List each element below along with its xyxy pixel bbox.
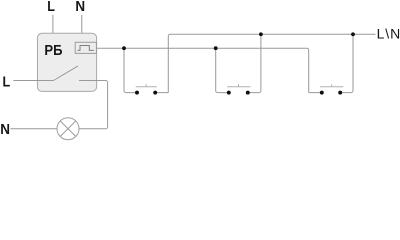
junction dot SB2 right on top rail	[259, 32, 263, 36]
button SB2 bridge	[227, 86, 250, 88]
wire button SB3 left link	[309, 92, 322, 94]
lamp EL1 (circle)	[57, 118, 79, 140]
contact dot SB2 left	[227, 91, 231, 95]
svg-text:L\N: L\N	[377, 26, 400, 42]
svg-text:L: L	[47, 0, 55, 14]
contact dot SB3 left	[320, 91, 324, 95]
wire button SB3 right link	[340, 34, 353, 92]
junction dot SB2 left on rail	[214, 46, 218, 50]
wire button SB1 left drop	[124, 48, 137, 92]
wire L input into switch	[13, 80, 53, 82]
wire button SB2 right link	[248, 34, 261, 92]
svg-text:N: N	[0, 121, 10, 138]
button SB2 actuator	[238, 84, 240, 87]
wire button SB1 right link	[155, 92, 168, 94]
contact dot SB1 right	[153, 91, 157, 95]
lamp cross	[60, 121, 76, 137]
wire lamp to N	[10, 128, 57, 130]
button SB3 bridge	[320, 86, 343, 88]
junction dot SB1 left on rail	[122, 46, 126, 50]
wire main signal rail from pulse input	[97, 48, 309, 92]
wire top return rail to L\N	[168, 34, 375, 92]
svg-text:РБ: РБ	[44, 41, 62, 58]
button SB1 bridge	[136, 86, 157, 88]
wire switch output to lamp drop	[79, 81, 108, 129]
junction dot SB3 right on top rail	[351, 32, 355, 36]
contact dot SB1 left	[135, 91, 139, 95]
relay contact S1 (open switch blade)	[54, 66, 79, 81]
contact dot SB3 right	[338, 91, 342, 95]
wire button SB2 left drop	[216, 48, 229, 92]
button SB1 actuator	[145, 84, 147, 87]
pulse input symbol (impulse block)	[75, 42, 96, 53]
wire N supply to box top	[81, 15, 83, 34]
button SB3 actuator	[331, 84, 333, 87]
svg-text:N: N	[75, 0, 85, 15]
svg-text:L: L	[3, 73, 11, 90]
contact dot SB2 right	[246, 91, 250, 95]
wire L supply to box top	[52, 15, 54, 34]
pulse waveform	[78, 46, 94, 51]
relay module U1 (РБ box)	[37, 33, 96, 91]
